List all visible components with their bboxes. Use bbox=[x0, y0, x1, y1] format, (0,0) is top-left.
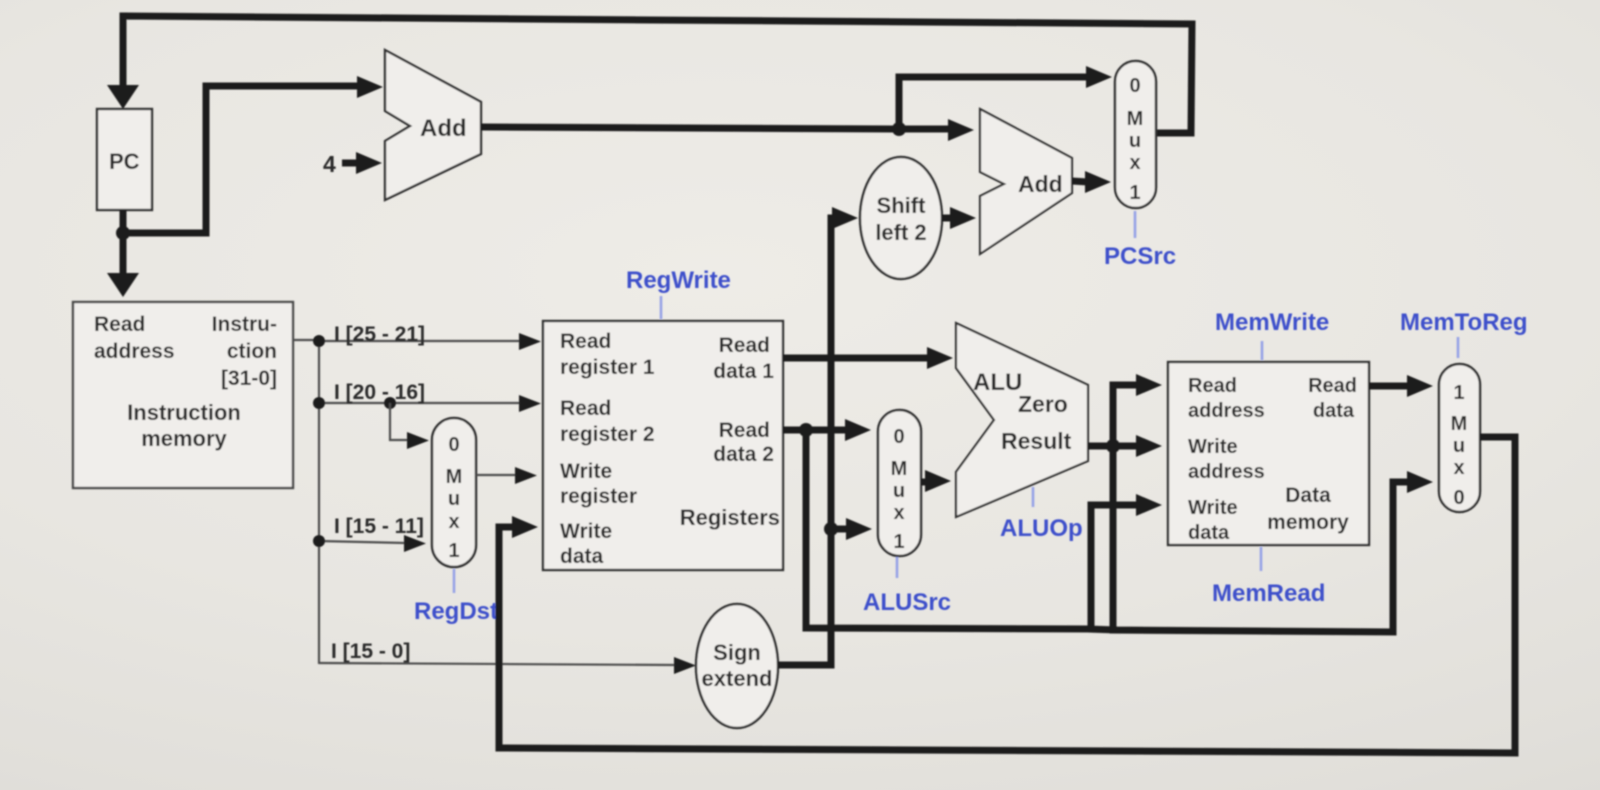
wire instruction output bus bbox=[293, 340, 319, 664]
svg-text:RegDst: RegDst bbox=[414, 598, 498, 625]
svg-text:Shift: Shift bbox=[877, 193, 927, 218]
svg-text:ALUSrc: ALUSrc bbox=[863, 589, 951, 616]
svg-text:register 2: register 2 bbox=[560, 423, 655, 446]
wire 4 into Add #1 bbox=[342, 152, 382, 174]
svg-text:u: u bbox=[1453, 435, 1465, 457]
svg-text:1: 1 bbox=[448, 540, 459, 562]
control tick RegDst bbox=[453, 569, 456, 593]
wire RegDst mux output to Write register bbox=[476, 467, 537, 484]
wire ALU result to data memory Write address bbox=[1088, 435, 1162, 457]
svg-text:I [25 - 21]: I [25 - 21] bbox=[334, 323, 425, 346]
wire I[25-21] to Read register 1 bbox=[319, 323, 541, 350]
svg-text:I [15 - 0]: I [15 - 0] bbox=[331, 640, 410, 663]
wire sign extend output up to shift left 2 (with branch to ALUSrc mux 1) bbox=[778, 207, 858, 665]
svg-text:Write: Write bbox=[560, 520, 612, 543]
wire PC feedback top loop (PCSrc mux output to PC input) bbox=[107, 16, 1192, 133]
svg-text:MemRead: MemRead bbox=[1212, 580, 1325, 607]
svg-text:MemToReg: MemToReg bbox=[1400, 309, 1528, 336]
control tick RegWrite bbox=[660, 296, 663, 319]
wire Add #1 output to Add #2 and PCSrc mux bbox=[481, 119, 974, 141]
wire MemToReg mux output back to registers Write data bbox=[499, 437, 1515, 753]
svg-text:Zero: Zero bbox=[1018, 391, 1068, 417]
svg-text:ction: ction bbox=[227, 340, 277, 363]
mux MemToReg (1 top / 0 bottom) bbox=[1439, 364, 1480, 512]
registers box bbox=[543, 321, 783, 570]
wire I[20-16] to Read register 2 bbox=[319, 381, 541, 412]
svg-text:Read: Read bbox=[94, 313, 145, 336]
control tick ALUOp bbox=[1032, 487, 1035, 507]
svg-text:Read: Read bbox=[719, 334, 770, 357]
instruction memory box bbox=[73, 302, 293, 488]
svg-text:Write: Write bbox=[560, 460, 612, 483]
junction I[20-16] bbox=[313, 397, 325, 409]
mux ALUSrc (0 top / 1 bottom) bbox=[878, 410, 921, 556]
svg-text:0: 0 bbox=[1129, 75, 1140, 97]
register PC bbox=[97, 109, 152, 210]
svg-text:data 1: data 1 bbox=[713, 360, 774, 383]
junction PC output bbox=[116, 226, 130, 240]
svg-text:extend: extend bbox=[702, 666, 773, 691]
svg-text:Registers: Registers bbox=[680, 505, 780, 530]
wire ALUSrc mux output to ALU bbox=[921, 470, 951, 492]
svg-text:Result: Result bbox=[1001, 428, 1072, 454]
ALU bbox=[956, 323, 1088, 517]
wire PC+4 up to PCSrc mux input 0 bbox=[899, 66, 1112, 129]
svg-text:0: 0 bbox=[448, 434, 459, 456]
svg-text:memory: memory bbox=[141, 426, 227, 451]
svg-text:register: register bbox=[560, 485, 637, 508]
wire bottom bridge between verticals bbox=[1088, 629, 1117, 630]
svg-text:u: u bbox=[448, 488, 460, 510]
wire Read data 1 to ALU input bbox=[783, 347, 953, 369]
svg-text:address: address bbox=[1188, 461, 1265, 483]
svg-text:Sign: Sign bbox=[713, 640, 761, 665]
svg-text:address: address bbox=[94, 340, 175, 363]
control tick ALUSrc bbox=[896, 557, 899, 578]
junction Read data 2 bbox=[799, 423, 813, 437]
svg-text:Data: Data bbox=[1285, 484, 1331, 507]
wire PC output down to instruction memory bbox=[107, 210, 139, 297]
control tick PCSrc bbox=[1134, 211, 1137, 238]
svg-text:M: M bbox=[1127, 108, 1144, 130]
svg-text:data: data bbox=[1188, 522, 1230, 544]
svg-text:PC: PC bbox=[109, 149, 140, 174]
svg-text:PCSrc: PCSrc bbox=[1104, 243, 1176, 270]
wire Add #2 output into PCSrc mux input 1 bbox=[1072, 171, 1111, 193]
svg-text:data 2: data 2 bbox=[713, 443, 774, 466]
svg-text:Add: Add bbox=[420, 115, 467, 142]
wire I[15-11] to RegDst mux input 1 bbox=[319, 515, 426, 552]
svg-text:Instru-: Instru- bbox=[212, 313, 277, 336]
svg-text:M: M bbox=[1451, 413, 1468, 435]
svg-text:Add: Add bbox=[1018, 171, 1063, 197]
junction sign extend branch bbox=[824, 522, 838, 536]
junction Add #1 output bbox=[892, 122, 906, 136]
svg-text:1: 1 bbox=[1129, 182, 1140, 204]
svg-text:Write: Write bbox=[1188, 497, 1238, 519]
svg-text:1: 1 bbox=[1453, 382, 1464, 404]
svg-text:1: 1 bbox=[893, 531, 904, 553]
svg-text:ALUOp: ALUOp bbox=[1000, 515, 1083, 542]
junction I[25-21] bbox=[313, 335, 325, 347]
svg-text:Read: Read bbox=[1308, 375, 1357, 397]
mux RegDst (0 top / 1 bottom) bbox=[432, 418, 476, 567]
svg-text:I [15 - 11]: I [15 - 11] bbox=[334, 515, 424, 538]
svg-text:x: x bbox=[448, 511, 459, 533]
svg-text:left 2: left 2 bbox=[875, 220, 926, 245]
wire PC to Add #1 input bbox=[123, 76, 383, 233]
adder Add #2 (branch target) bbox=[980, 109, 1072, 254]
svg-text:I [20 - 16]: I [20 - 16] bbox=[334, 381, 425, 404]
svg-text:data: data bbox=[560, 545, 604, 568]
svg-text:0: 0 bbox=[1453, 487, 1464, 509]
wire ALU result up to data memory Read address bbox=[1113, 374, 1162, 446]
wire Read data 2 to data memory Write data bbox=[806, 430, 1162, 629]
wire Read data 2 to ALUSrc mux input 0 bbox=[783, 419, 871, 441]
svg-text:[31-0]: [31-0] bbox=[221, 367, 277, 390]
svg-text:4: 4 bbox=[323, 151, 336, 177]
svg-text:x: x bbox=[1453, 457, 1464, 479]
wire I[15-0] to sign extend bbox=[319, 640, 696, 674]
svg-text:address: address bbox=[1188, 400, 1265, 422]
ellipse Sign extend bbox=[696, 604, 778, 728]
svg-text:register 1: register 1 bbox=[560, 356, 655, 379]
junction ALU result bbox=[1106, 439, 1120, 453]
wire ALU result bypass to MemToReg mux input 0 bbox=[1113, 446, 1433, 632]
svg-text:memory: memory bbox=[1267, 511, 1349, 534]
adder Add #1 (PC+4) bbox=[385, 50, 481, 200]
svg-text:0: 0 bbox=[893, 426, 904, 448]
svg-text:data: data bbox=[1313, 400, 1355, 422]
svg-text:x: x bbox=[1129, 152, 1140, 174]
svg-text:Instruction: Instruction bbox=[127, 400, 241, 425]
mux PCSrc (0 top / 1 bottom) bbox=[1115, 61, 1156, 208]
wire shift left 2 output into Add #2 bbox=[942, 207, 976, 229]
svg-text:Write: Write bbox=[1188, 436, 1238, 458]
control tick MemToReg bbox=[1457, 337, 1460, 358]
svg-text:Read: Read bbox=[560, 397, 611, 420]
data memory box bbox=[1168, 362, 1369, 545]
wire data memory Read data to MemToReg mux input 1 bbox=[1369, 375, 1433, 397]
wire I[20-16] branch down into RegDst mux input 0 bbox=[390, 403, 429, 449]
svg-text:M: M bbox=[891, 458, 908, 480]
wire sign extend branch into ALUSrc mux input 1 bbox=[831, 518, 872, 540]
svg-text:u: u bbox=[893, 480, 905, 502]
svg-text:x: x bbox=[893, 502, 904, 524]
svg-text:u: u bbox=[1129, 130, 1141, 152]
control tick MemWrite bbox=[1261, 341, 1264, 360]
junction I[20-16] branch to RegDst mux bbox=[384, 397, 396, 409]
ellipse Shift left 2 bbox=[860, 157, 942, 279]
svg-text:M: M bbox=[446, 466, 463, 488]
junction I[15-11] bbox=[313, 535, 325, 547]
control tick MemRead bbox=[1260, 547, 1263, 571]
svg-text:Read: Read bbox=[719, 419, 770, 442]
svg-text:RegWrite: RegWrite bbox=[626, 267, 731, 294]
svg-text:ALU: ALU bbox=[973, 369, 1022, 396]
svg-text:Read: Read bbox=[1188, 375, 1237, 397]
svg-text:MemWrite: MemWrite bbox=[1215, 309, 1329, 336]
svg-text:Read: Read bbox=[560, 330, 611, 353]
